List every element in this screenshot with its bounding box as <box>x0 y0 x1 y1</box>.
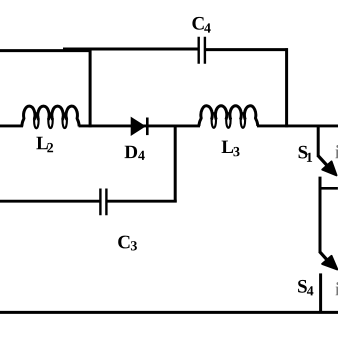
label S1 <box>299 146 308 159</box>
inductor L3 <box>199 106 258 126</box>
label C4 <box>192 17 203 30</box>
wire mid right <box>257 124 338 127</box>
capacitor C4 <box>199 37 205 64</box>
wire mid center <box>79 124 200 127</box>
wire top branch left segment <box>63 48 198 51</box>
wire rail S1 to S4 <box>319 177 322 253</box>
switch S4 blade <box>320 252 329 262</box>
wire output tick <box>320 187 338 190</box>
wire vertical at x=90 <box>89 48 92 128</box>
current label i S4 (cropped) <box>336 282 338 295</box>
label L3 <box>222 141 234 153</box>
wire mid left <box>0 124 23 127</box>
switch S4 bottom terminal <box>319 273 322 313</box>
diode D4 cathode bar <box>146 118 149 136</box>
switch S4 arrowhead <box>322 256 337 270</box>
inductor L2 <box>22 106 79 126</box>
switch S1 arrowhead <box>322 162 336 176</box>
wire top branch right segment <box>206 48 289 51</box>
switch S1 top terminal <box>317 125 320 158</box>
switch S1 blade <box>318 156 328 167</box>
label S4 <box>298 280 307 293</box>
wire vertical junction to C3 net <box>174 126 177 202</box>
wire C3 net left segment <box>0 200 100 203</box>
wire vertical at x=286.6 <box>285 48 288 127</box>
label L2 <box>36 137 48 149</box>
wire bottom <box>0 311 338 314</box>
wire top-left input <box>0 49 91 52</box>
label D4 <box>125 146 138 158</box>
wire C3 net right segment <box>107 200 177 203</box>
current label i S1 (cropped) <box>336 145 338 158</box>
capacitor C3 <box>100 189 106 216</box>
diode D4 <box>131 118 145 136</box>
label C3 <box>118 236 129 249</box>
